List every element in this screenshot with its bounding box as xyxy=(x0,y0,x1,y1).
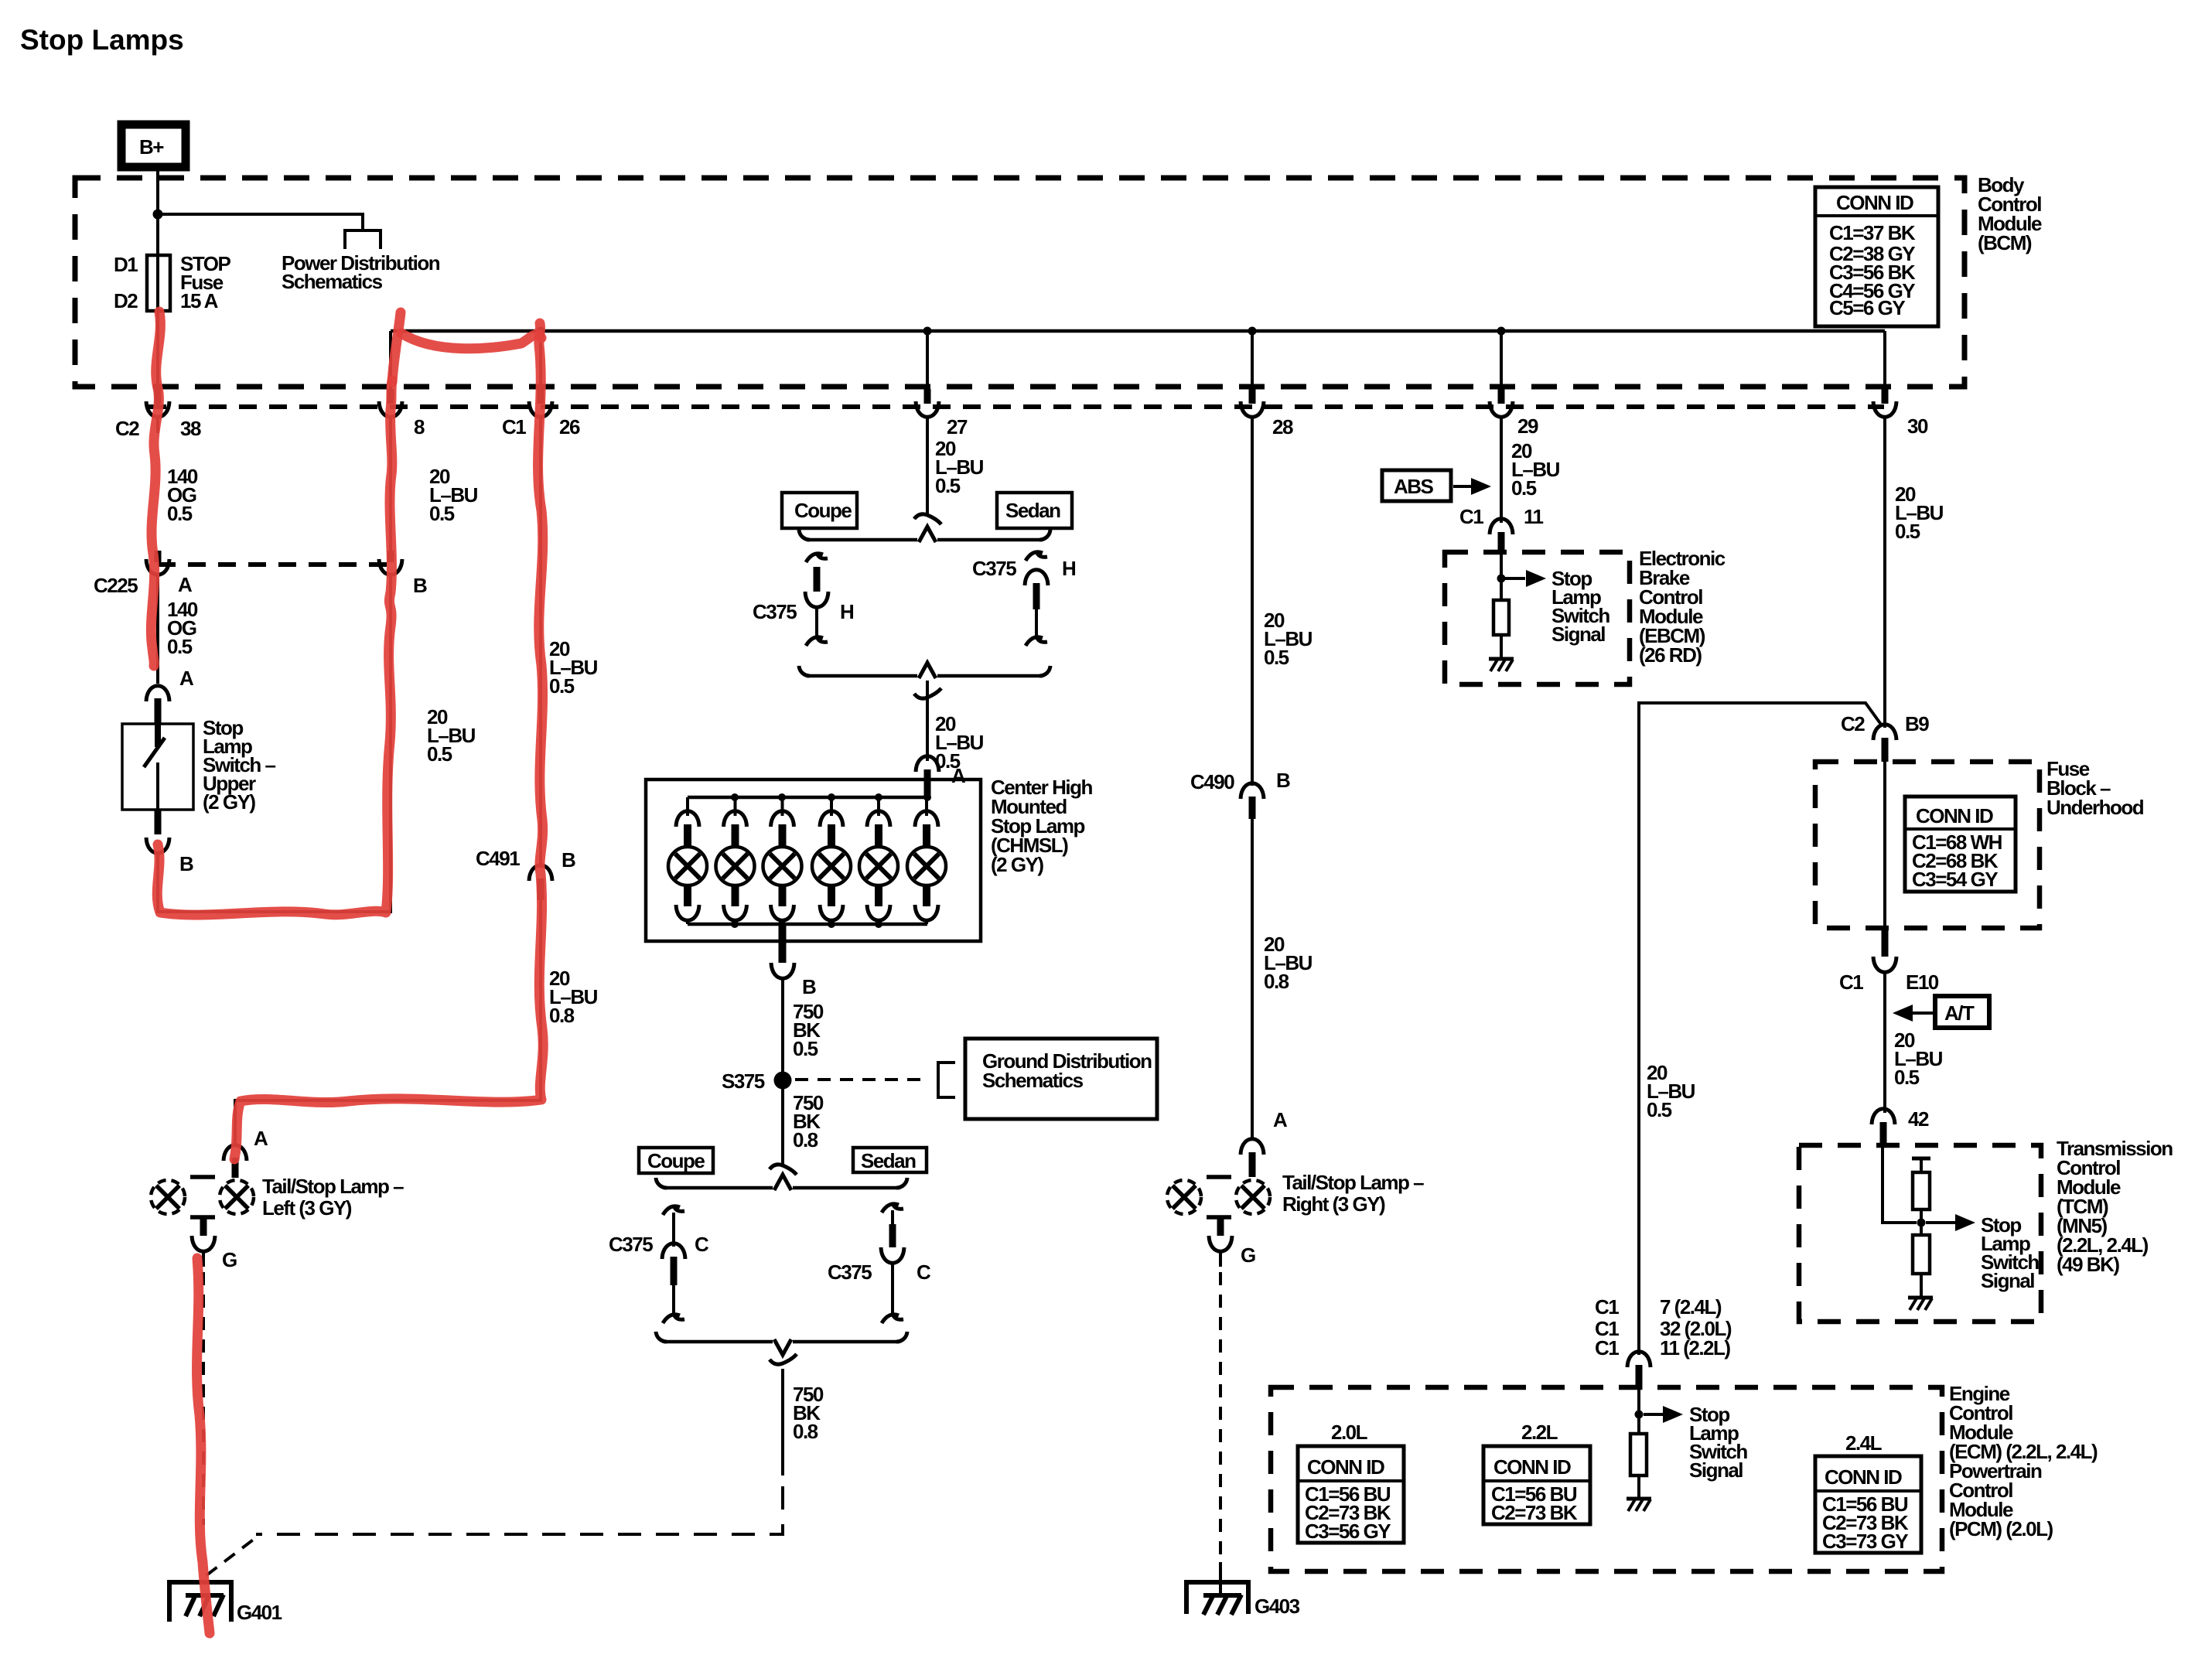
svg-text:(2 GY): (2 GY) xyxy=(991,853,1043,876)
connector C491 pin B xyxy=(476,847,575,900)
svg-text:C2=73 BK: C2=73 BK xyxy=(1491,1501,1578,1524)
svg-text:D2: D2 xyxy=(114,289,138,312)
label 20 L-BU 0.5 on switch return wire xyxy=(427,705,476,766)
label Center High Mounted Stop Lamp (CHMSL) (2 GY) xyxy=(991,776,1092,876)
svg-text:C375: C375 xyxy=(972,557,1016,580)
module EBCM dashed box xyxy=(1445,552,1630,684)
svg-text:A: A xyxy=(178,573,193,596)
wire red marker tail above bus xyxy=(392,312,401,382)
wire lower section option split bus xyxy=(664,1186,899,1190)
svg-text:C375: C375 xyxy=(609,1233,653,1256)
svg-text:2.4L: 2.4L xyxy=(1845,1431,1883,1455)
wire CHMSL internal bottom bus xyxy=(688,923,927,926)
ground G403 xyxy=(1186,1582,1300,1618)
connector C375 pin H sedan branch xyxy=(972,551,1076,646)
connector pin 27 xyxy=(916,389,968,438)
label Tail/Stop Lamp - Right (3 GY) xyxy=(1282,1171,1424,1216)
lamp Center High Mounted Stop Lamp box xyxy=(646,780,981,941)
resistor EBCM input xyxy=(1493,600,1509,635)
label 750 BK 0.8 below S375 xyxy=(793,1091,824,1151)
lamp Tail/Stop Lamp - Right xyxy=(1167,1177,1270,1217)
wire B+ to fuse xyxy=(156,167,159,407)
connector pin 30 xyxy=(1873,389,1928,438)
wire C225 dotted interconnect line xyxy=(158,562,391,567)
svg-text:C1: C1 xyxy=(1595,1295,1619,1319)
svg-text:C225: C225 xyxy=(94,574,138,597)
connector C375 pin C coupe branch xyxy=(609,1205,709,1323)
svg-text:0.8: 0.8 xyxy=(793,1128,818,1151)
resistor TCM divider upper xyxy=(1912,1157,1930,1161)
svg-text:Tail/Stop Lamp –: Tail/Stop Lamp – xyxy=(1282,1171,1424,1194)
svg-text:27: 27 xyxy=(947,415,968,438)
svg-text:28: 28 xyxy=(1272,415,1293,438)
node bus junction dots xyxy=(537,327,545,336)
svg-text:Schematics: Schematics xyxy=(282,270,383,293)
svg-text:Coupe: Coupe xyxy=(647,1149,705,1172)
node ground distribution off-page bracket xyxy=(938,1063,955,1097)
node Coupe option label box xyxy=(782,493,857,528)
ground G401 xyxy=(169,1582,282,1624)
svg-text:B+: B+ xyxy=(139,135,164,159)
svg-text:C3=73 GY: C3=73 GY xyxy=(1822,1530,1908,1553)
label Engine Control Module (ECM) PCM xyxy=(1949,1382,2098,1540)
connector switch pin A xyxy=(146,686,169,701)
switch blade symbol xyxy=(155,724,161,747)
label Stop Lamp Switch Signal ECM xyxy=(1689,1403,1747,1482)
wire BCM connector row dotted line xyxy=(148,404,1884,409)
connector switch pin B xyxy=(155,810,162,834)
wire 750 BK 0.5 CHMSL to S375 xyxy=(781,980,784,1165)
svg-text:7 (2.4L): 7 (2.4L) xyxy=(1660,1295,1722,1319)
wire EBCM internal stop lamp signal xyxy=(1500,552,1503,600)
svg-text:CONN ID: CONN ID xyxy=(1916,804,1993,827)
svg-text:0.5: 0.5 xyxy=(167,635,193,658)
wire 28 from BCM to C490 xyxy=(1251,432,1254,786)
svg-text:30: 30 xyxy=(1907,414,1928,438)
svg-text:A: A xyxy=(254,1127,268,1150)
svg-text:C375: C375 xyxy=(828,1261,872,1284)
connector pin 8 xyxy=(379,389,425,438)
svg-text:0.5: 0.5 xyxy=(1511,476,1537,500)
svg-text:H: H xyxy=(1062,557,1076,580)
wire branch to power distribution reference xyxy=(158,214,363,229)
wire through fuse block xyxy=(1883,762,1886,928)
wire curl below merge bus xyxy=(914,688,941,698)
connector ECM C1 xyxy=(1627,1352,1650,1367)
wire 20 L-BU 0.5 fuse block to TCM xyxy=(1883,974,1886,1113)
connector EBCM C1 pin 11 xyxy=(1459,505,1544,552)
svg-text:A: A xyxy=(179,667,194,690)
node Sedan option label box lower xyxy=(853,1148,927,1172)
svg-text:(PCM) (2.0L): (PCM) (2.0L) xyxy=(1949,1517,2053,1540)
svg-text:C3=54 GY: C3=54 GY xyxy=(1912,868,1998,891)
label Stop Lamp Switch Signal TCM xyxy=(1981,1213,2039,1292)
svg-text:B: B xyxy=(562,848,575,872)
BCM CONN ID table xyxy=(1815,187,1938,326)
svg-text:0.5: 0.5 xyxy=(549,674,575,698)
wire red marker highlight left lamp ground run xyxy=(197,1258,210,1633)
connector C375 pin C sedan branch xyxy=(828,1203,931,1323)
svg-text:2.2L: 2.2L xyxy=(1521,1421,1558,1444)
connector C225 pin B xyxy=(379,551,427,597)
wire pin 8 to C225-B upper segment xyxy=(389,432,392,552)
connector C2 pin 38 xyxy=(115,389,201,440)
svg-text:Signal: Signal xyxy=(1689,1458,1743,1482)
node B+ battery feed box xyxy=(121,125,186,167)
wire CHMSL internal top bus xyxy=(688,796,927,800)
svg-text:C1: C1 xyxy=(1839,971,1863,994)
label Stop Lamp Switch - Upper (2 GY) xyxy=(203,716,276,814)
svg-text:29: 29 xyxy=(1517,414,1538,438)
ground TCM internal chassis ground xyxy=(1908,1298,1933,1310)
svg-text:ABS: ABS xyxy=(1394,475,1434,498)
connector right lamp pin G xyxy=(1209,1216,1255,1267)
svg-text:0.5: 0.5 xyxy=(1895,520,1920,543)
wire 29 from BCM to EBCM xyxy=(1500,432,1503,523)
svg-text:2.0L: 2.0L xyxy=(1331,1421,1368,1444)
svg-text:C: C xyxy=(695,1233,709,1256)
node power distribution off-page bracket xyxy=(345,230,381,249)
wire dashed ground wire to G403 xyxy=(1219,1272,1222,1562)
svg-text:Tail/Stop Lamp –: Tail/Stop Lamp – xyxy=(262,1175,404,1198)
svg-text:(49 BK): (49 BK) xyxy=(2057,1253,2119,1276)
fuse STOP Fuse 15 A xyxy=(147,255,170,311)
svg-text:C5=6 GY: C5=6 GY xyxy=(1829,296,1905,319)
label Electronic Brake Control Module (EBCM) (26 RD) xyxy=(1639,547,1726,667)
node Coupe option label box lower xyxy=(639,1148,713,1173)
svg-text:0.5: 0.5 xyxy=(935,474,961,497)
svg-text:Sedan: Sedan xyxy=(1005,499,1060,522)
svg-text:C375: C375 xyxy=(753,600,797,623)
wire 27 from BCM down to option split xyxy=(926,432,929,513)
svg-text:C3=56 GY: C3=56 GY xyxy=(1305,1520,1391,1543)
svg-text:C1: C1 xyxy=(1459,505,1483,528)
wire TCM internal from pin 42 xyxy=(1883,1145,1917,1223)
wire end curl above coupe/sedan split xyxy=(914,514,941,524)
svg-text:B: B xyxy=(413,574,427,597)
svg-text:(26 RD): (26 RD) xyxy=(1639,643,1702,667)
connector CHMSL pin A xyxy=(916,756,939,772)
resistor ECM input xyxy=(1630,1434,1647,1475)
svg-text:Left (3 GY): Left (3 GY) xyxy=(262,1196,352,1220)
lamp CHMSL bulb 3 xyxy=(763,797,802,924)
wire 26 from BCM to C491 xyxy=(539,432,542,868)
svg-text:Right (3 GY): Right (3 GY) xyxy=(1282,1192,1385,1216)
wire switch B loop down right and up to C225-B xyxy=(158,576,391,912)
wire curl below lower merge bus xyxy=(770,1354,797,1364)
Fuse Block CONN ID table xyxy=(1905,797,2016,892)
connector CHMSL output pin B xyxy=(771,924,816,998)
svg-text:(BCM): (BCM) xyxy=(1978,231,2032,254)
connector C375 pin H coupe branch xyxy=(753,552,854,646)
svg-text:A: A xyxy=(1273,1108,1288,1131)
node junction at B+ feed xyxy=(153,210,163,220)
svg-text:11: 11 xyxy=(1524,505,1544,528)
ECM CONN ID table 2.2L xyxy=(1483,1446,1590,1524)
svg-text:26: 26 xyxy=(559,415,580,438)
lamp CHMSL bulb 2 xyxy=(716,797,755,924)
module ECM dashed box xyxy=(1271,1387,1942,1571)
module Fuse Block - Underhood dashed box xyxy=(1815,762,2040,928)
connector fuse block C2 pin B9 xyxy=(1841,712,1929,762)
svg-text:C1: C1 xyxy=(1595,1336,1619,1359)
lamp CHMSL bulb 5 xyxy=(859,797,898,924)
svg-text:C490: C490 xyxy=(1190,770,1234,793)
svg-text:C491: C491 xyxy=(476,847,520,870)
svg-text:0.8: 0.8 xyxy=(549,1004,575,1027)
lamp CHMSL bulb 6 xyxy=(907,797,946,924)
svg-text:CONN ID: CONN ID xyxy=(1493,1455,1571,1479)
wire red marker highlight fuse output xyxy=(151,312,160,666)
wire red marker highlight wire 26 run xyxy=(234,323,543,1159)
node Ground Distribution Schematics box xyxy=(965,1039,1157,1119)
wire 140 OG from C2-38 to C225 xyxy=(167,465,198,525)
lamp Tail/Stop Lamp - Left xyxy=(151,1177,254,1217)
svg-text:G: G xyxy=(1241,1243,1255,1267)
node splice S375 xyxy=(774,1072,792,1090)
wire red marker highlight switch loop and pin 8 riser xyxy=(157,380,392,915)
wire 140 OG from C225-A to switch xyxy=(156,576,159,684)
svg-text:C1: C1 xyxy=(502,415,526,438)
svg-text:0.5: 0.5 xyxy=(427,742,452,766)
resistor TCM divider lower xyxy=(1913,1235,1930,1274)
svg-text:B: B xyxy=(1276,769,1290,792)
wire 750 BK 0.8 to ground run xyxy=(781,1369,784,1475)
ground EBCM internal chassis ground xyxy=(1489,659,1514,671)
svg-text:Schematics: Schematics xyxy=(982,1069,1084,1092)
label Transmission Control Module (TCM) (MN5) (2.2L, 2.4L) (49 BK) xyxy=(2057,1137,2173,1276)
wire dashed ground wire to G401 xyxy=(202,1272,205,1525)
label STOP Fuse 15 A xyxy=(180,252,230,312)
svg-text:C1=37 BK: C1=37 BK xyxy=(1829,221,1916,244)
svg-text:Signal: Signal xyxy=(1981,1269,2034,1292)
wire BCM internal bus xyxy=(391,329,1885,333)
svg-text:G403: G403 xyxy=(1254,1595,1300,1618)
wire upper option split bus xyxy=(807,538,1043,542)
node ABS reference box xyxy=(1382,470,1491,501)
wire lower option merge bus second xyxy=(664,1340,899,1344)
wire branch to ECM stop lamp signal xyxy=(1639,703,1882,1355)
BCM dashed outline box xyxy=(75,178,1965,387)
svg-text:E10: E10 xyxy=(1906,971,1939,994)
label Tail/Stop Lamp - Left (3 GY) xyxy=(262,1175,404,1220)
svg-text:S375: S375 xyxy=(722,1070,765,1093)
label Power Distribution Schematics xyxy=(282,251,440,293)
connector TCM pin 42 xyxy=(1872,1107,1929,1145)
wire 30 from BCM to fuse block B9 xyxy=(1883,432,1886,728)
module TCM dashed box xyxy=(1799,1145,2041,1322)
svg-text:(2 GY): (2 GY) xyxy=(203,790,255,814)
svg-text:G: G xyxy=(222,1248,237,1271)
svg-text:B9: B9 xyxy=(1905,712,1929,735)
svg-text:C2: C2 xyxy=(1841,712,1865,735)
connector pin 28 xyxy=(1241,389,1293,438)
connector pin 29 xyxy=(1490,389,1538,438)
svg-text:38: 38 xyxy=(180,417,201,440)
wire dashed ground link to CHMSL ground wire xyxy=(207,1538,255,1575)
svg-text:Underhood: Underhood xyxy=(2046,796,2144,819)
svg-text:CONN ID: CONN ID xyxy=(1825,1465,1902,1489)
svg-text:A/T: A/T xyxy=(1944,1001,1975,1025)
wire ECM internal stop lamp signal xyxy=(1637,1390,1640,1434)
svg-text:0.5: 0.5 xyxy=(167,502,193,525)
wire 20 L-BU 0.8 from C490 to right lamp xyxy=(1251,819,1254,1140)
ground ECM internal chassis ground xyxy=(1627,1499,1651,1511)
connector C490 pin B xyxy=(1190,769,1290,819)
ECM CONN ID table 2.4L xyxy=(1815,1456,1921,1553)
svg-text:8: 8 xyxy=(414,415,425,438)
svg-text:CONN ID: CONN ID xyxy=(1307,1455,1384,1479)
switch Stop Lamp Switch - Upper box xyxy=(122,724,193,810)
svg-text:Sedan: Sedan xyxy=(861,1149,916,1172)
connector C225 pin A xyxy=(94,551,193,597)
lamp CHMSL bulb 1 xyxy=(668,797,707,924)
svg-text:0.8: 0.8 xyxy=(793,1420,818,1443)
svg-text:Coupe: Coupe xyxy=(794,499,852,522)
svg-text:C2: C2 xyxy=(115,417,139,440)
svg-text:0.5: 0.5 xyxy=(1647,1098,1672,1121)
lamp CHMSL bulb 4 xyxy=(812,797,851,924)
label Fuse Block - Underhood xyxy=(2046,757,2144,819)
ECM CONN ID table 2.0L xyxy=(1298,1446,1404,1543)
svg-text:0.5: 0.5 xyxy=(429,502,455,525)
svg-text:0.5: 0.5 xyxy=(1894,1066,1920,1089)
wire 20 L-BU 0.8 from C491 to left lamp xyxy=(235,900,541,1146)
svg-text:0.5: 0.5 xyxy=(1264,646,1289,669)
label ECM branch pin rows C1 C1 C1 xyxy=(1595,1295,1732,1359)
connector left lamp pin G xyxy=(192,1216,237,1271)
connector C1 pin 26 xyxy=(502,389,580,438)
svg-text:0.8: 0.8 xyxy=(1264,970,1289,993)
svg-text:C: C xyxy=(917,1261,931,1284)
svg-text:G401: G401 xyxy=(237,1601,282,1624)
svg-text:B: B xyxy=(802,975,816,998)
svg-text:D1: D1 xyxy=(114,253,138,276)
svg-text:B: B xyxy=(179,852,193,875)
node A/T reference box xyxy=(1893,996,1989,1028)
connector fuse block C1 pin E10 xyxy=(1839,928,1939,994)
wire 20 L-BU to CHMSL pin A xyxy=(926,681,929,761)
svg-text:Signal: Signal xyxy=(1551,623,1605,646)
svg-text:H: H xyxy=(840,600,854,623)
wire end curl above lower coupe/sedan split xyxy=(770,1165,797,1175)
node Sedan option label box xyxy=(997,493,1072,528)
svg-text:Stop Lamps: Stop Lamps xyxy=(20,24,184,56)
label Stop Lamp Switch Signal EBCM xyxy=(1551,567,1610,646)
svg-text:A: A xyxy=(951,764,966,787)
label Body Control Module (BCM) xyxy=(1978,173,2042,254)
wire lower option merge bus xyxy=(807,674,1043,678)
svg-text:11 (2.2L): 11 (2.2L) xyxy=(1660,1336,1730,1359)
svg-text:CONN ID: CONN ID xyxy=(1836,191,1913,214)
svg-text:15 A: 15 A xyxy=(180,289,219,312)
svg-text:42: 42 xyxy=(1908,1107,1929,1131)
svg-text:0.5: 0.5 xyxy=(793,1037,818,1060)
wire dashed reference from S375 xyxy=(795,1078,925,1081)
